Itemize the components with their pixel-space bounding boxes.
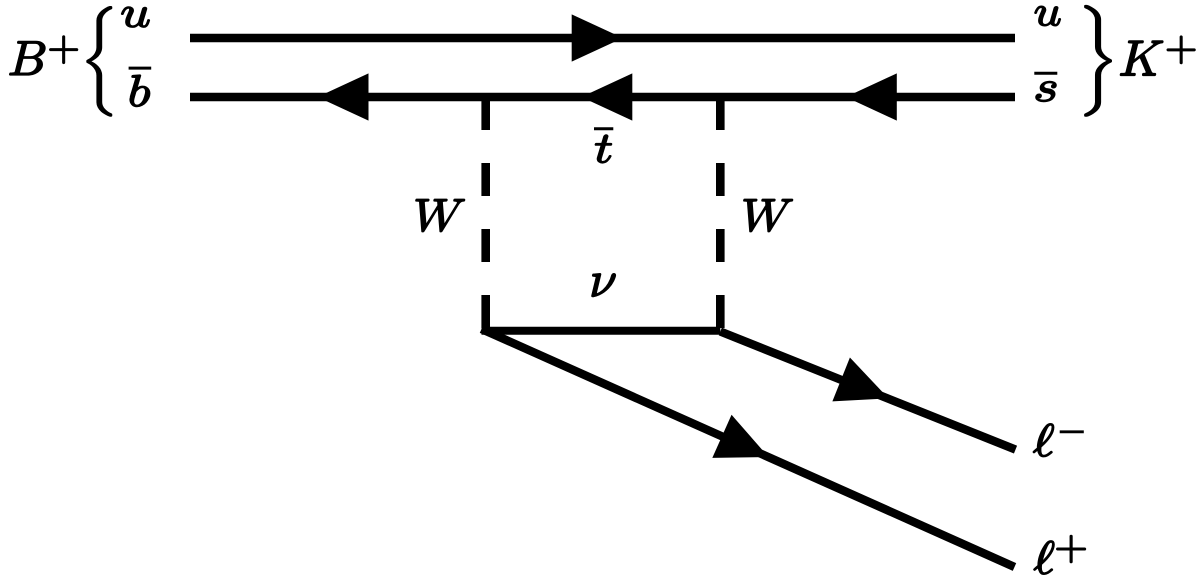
- label t quark: [595, 135, 611, 163]
- arrow on u quark line (rightward): [572, 14, 623, 61]
- label u quark (right): [1035, 6, 1060, 26]
- label b quark (left): [130, 75, 150, 106]
- brace right (K meson): [1085, 6, 1111, 116]
- wire u quark line (top, B to K): [190, 34, 1015, 42]
- arrow 1 on b-bar line (leftward): [318, 73, 369, 120]
- wire l-plus lepton line: [482, 329, 1015, 567]
- brace left (B meson): [87, 7, 112, 116]
- label u quark (left): [122, 7, 150, 27]
- label B superscript plus: [50, 36, 78, 63]
- label s quark (right): [1036, 81, 1056, 101]
- label ell (l-plus lepton): [1034, 541, 1054, 574]
- label W (right boson): [744, 199, 793, 231]
- overline of t: [594, 127, 613, 130]
- arrow 3 on b-bar line (leftward): [846, 73, 897, 120]
- arrow 2 on b-bar line (leftward, t-bar segment): [581, 73, 632, 120]
- label nu neutrino: [592, 274, 615, 297]
- label W (left boson): [416, 199, 465, 231]
- arrow on l-plus line: [712, 415, 778, 479]
- label K: [1120, 41, 1162, 75]
- W boson left (dashed propagator): [481, 97, 490, 329]
- label K superscript plus: [1167, 36, 1195, 63]
- superscript minus of l-minus: [1060, 430, 1084, 433]
- label B: [10, 41, 45, 74]
- overline of s: [1034, 72, 1057, 75]
- label ell (l-minus lepton): [1033, 424, 1053, 457]
- arrow on l-minus line: [832, 358, 897, 421]
- superscript plus of l-plus: [1057, 535, 1086, 562]
- overline of b: [129, 67, 152, 70]
- wire neutrino line: [482, 327, 721, 335]
- wire b-bar quark line: [190, 93, 1015, 101]
- wire l-minus lepton line: [720, 332, 1015, 450]
- W boson right (dashed propagator): [716, 97, 725, 329]
